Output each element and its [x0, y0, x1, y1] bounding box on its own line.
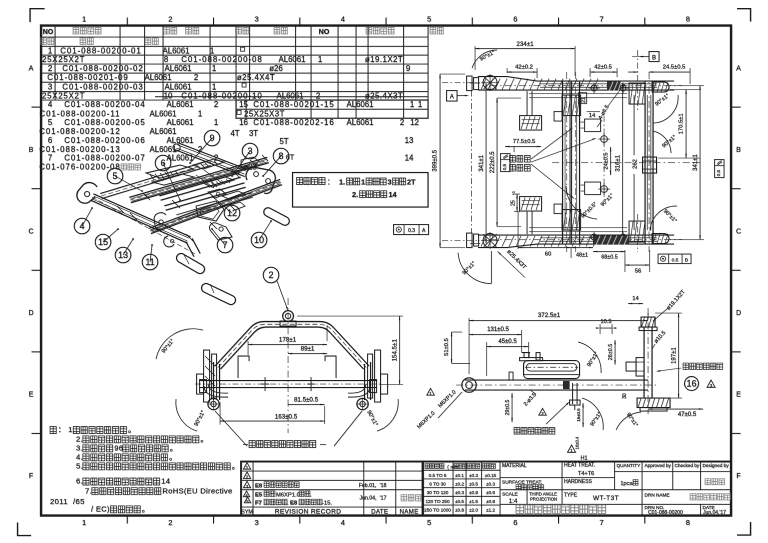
isometric assembly view — [74, 130, 295, 311]
revision box around items 15/16 — [236, 100, 428, 118]
dim 14 top — [620, 300, 628, 302]
tolerance table — [452, 462, 454, 516]
left vertical tube section — [213, 362, 215, 400]
dim 399 overall — [440, 73, 465, 75]
dim 29 — [511, 390, 513, 396]
coupler on right tube — [643, 157, 657, 173]
side view of frame — [416, 289, 722, 453]
revision record table — [241, 462, 423, 516]
triangle and dim near bottom — [567, 445, 575, 452]
hatched right end caps — [652, 82, 669, 92]
lower cross tube — [200, 380, 377, 382]
datum axis line left — [470, 91, 472, 234]
post mid plate — [636, 358, 644, 377]
dim 42+-0.5 — [589, 68, 591, 77]
dim 47 — [648, 408, 703, 410]
rear long tube — [129, 157, 267, 197]
top-right hook bracket part 8 with holes — [246, 167, 275, 193]
small details on rails — [130, 213, 137, 220]
right mount bracket cluster — [375, 350, 381, 402]
tapped hole note bottom — [514, 428, 555, 435]
bracket part 7 — [209, 223, 232, 240]
dim 81.5 — [288, 404, 325, 406]
left end ring — [462, 378, 476, 392]
dim 341 right — [670, 85, 704, 87]
dim 77.5 — [505, 146, 541, 148]
pin cross symbol top — [483, 76, 497, 90]
second seat plate right — [193, 159, 224, 169]
dim 42+-0.2 — [506, 68, 508, 73]
dim 222 — [497, 97, 521, 99]
dim 51 — [452, 331, 463, 333]
dim 25 — [514, 193, 520, 195]
center seat bracket plates — [146, 165, 194, 178]
parallel tolerance box left — [501, 154, 511, 172]
right vertical tube — [644, 81, 646, 244]
main tube — [465, 379, 648, 381]
bolt head top — [641, 317, 655, 327]
feet — [208, 398, 219, 409]
main bent tube outline — [215, 322, 369, 367]
left end plates top — [467, 76, 473, 91]
center bracket part 13/11 plates — [196, 201, 224, 221]
mid clips — [238, 356, 249, 378]
balloon leaders — [190, 138, 212, 163]
tube end curls — [204, 386, 228, 397]
upper seat bracket with stub to rail — [520, 116, 542, 131]
mid cross tubes — [159, 173, 239, 196]
dim 131 — [521, 330, 523, 352]
geometric tolerance frame mid sheet — [394, 225, 429, 235]
bracket part 12 small plate — [208, 189, 226, 198]
right stub tube part 10 — [264, 208, 290, 226]
dim 45 — [486, 342, 488, 376]
studs on cross tube — [264, 377, 266, 391]
note leader inner holes — [215, 411, 247, 446]
pin left of assembly — [509, 372, 513, 380]
bottom dims — [517, 212, 519, 249]
dark pads on rails — [593, 82, 629, 245]
dim 316 — [622, 83, 624, 244]
foot plate — [637, 398, 670, 408]
dim 341 left — [470, 82, 480, 84]
plan view of frame — [433, 41, 725, 284]
dim 234 — [474, 46, 476, 70]
general notes text block — [50, 425, 240, 513]
left mount bracket cluster — [204, 350, 210, 402]
parallel tolerance box right — [715, 160, 725, 178]
dim 24.5 — [689, 68, 691, 84]
balloons — [204, 130, 220, 146]
datum A flag — [447, 91, 458, 102]
dim 178 — [247, 341, 249, 355]
angle leg and label lower left — [490, 251, 492, 284]
second rail wall lines — [529, 93, 627, 95]
dim 16 small — [582, 403, 584, 427]
front-left foot tube — [176, 253, 204, 273]
far cross rail — [177, 143, 247, 170]
dim 154.5 — [297, 315, 403, 317]
tapped hole note right — [683, 363, 723, 369]
datum B flag — [649, 52, 659, 62]
balloon 16 and revision triangle — [685, 377, 699, 391]
change note box 變更內容 — [293, 173, 429, 208]
clamp under frame part 11 — [164, 236, 174, 247]
title block — [423, 456, 731, 517]
lower seat bracket with stub to rail — [520, 197, 542, 212]
bottom rail with jog — [478, 234, 674, 236]
position target holes — [603, 116, 605, 200]
left vertical tube pair — [562, 81, 564, 244]
rear-left hook bracket part 4 — [77, 183, 97, 204]
dim 163 — [219, 402, 221, 425]
seat assembly on tube — [524, 361, 580, 379]
dim 89 — [288, 353, 327, 355]
right post — [643, 327, 645, 398]
parts table text — [39, 27, 443, 172]
tapped holes note — [510, 156, 531, 163]
clamp blocks at rail junctions — [629, 83, 645, 104]
title block cells — [526, 490, 528, 505]
left end plates bottom — [467, 233, 473, 248]
rear bracket near part3 — [241, 157, 259, 168]
extra mid plates for density — [203, 177, 234, 187]
dim 24+-0.5 — [610, 147, 612, 175]
clamp blocks at left tube junctions — [562, 95, 581, 116]
dim 372.5 — [468, 318, 470, 374]
dim 197 — [655, 312, 682, 314]
front long tube — [149, 179, 280, 228]
top rail with jog — [478, 77, 674, 82]
center line — [287, 298, 289, 433]
rear rail tube from hook — [100, 161, 209, 194]
dim 26 — [614, 340, 616, 365]
dim 10.5 — [599, 324, 601, 334]
rail size label — [498, 251, 525, 277]
dim 21 and 14 — [579, 93, 587, 104]
dim 262 — [633, 95, 635, 155]
front view of frame — [156, 298, 403, 448]
position tolerance box — [658, 254, 691, 264]
pin cross symbol bottom — [483, 234, 497, 248]
left cross rail — [93, 194, 190, 237]
hanging bolt — [563, 381, 570, 389]
center clamp part 2 — [283, 311, 294, 322]
parts list table grid — [41, 26, 428, 119]
dim 170.5 — [670, 89, 700, 91]
hole bracket arms — [585, 119, 601, 132]
